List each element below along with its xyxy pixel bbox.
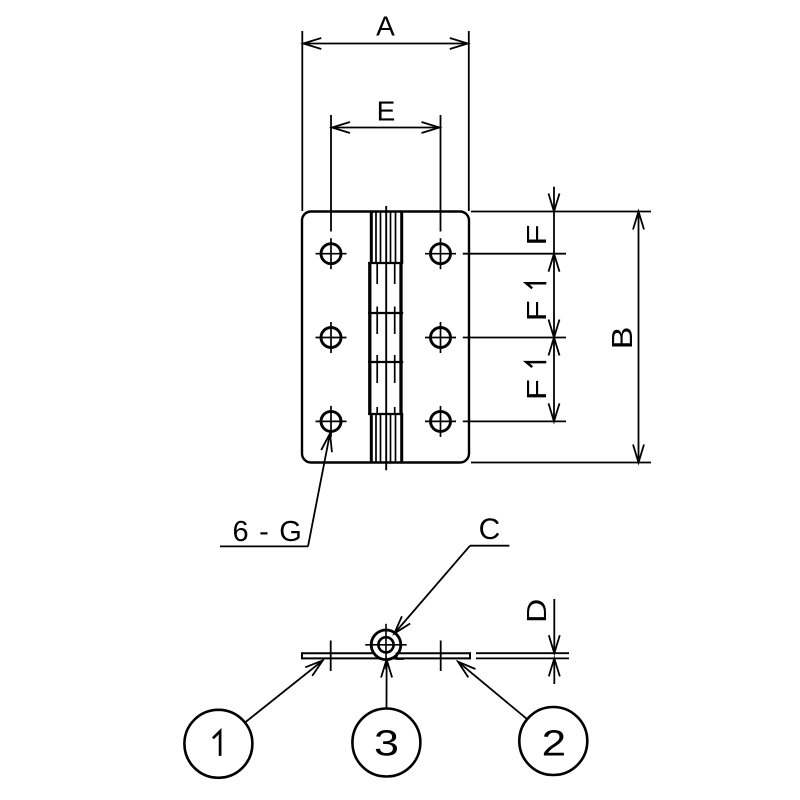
label D <box>521 599 552 623</box>
dimension A line with arrows <box>303 38 468 49</box>
6-G leader with arrow <box>308 434 332 547</box>
dimension E extension line right <box>440 115 442 232</box>
hole middle-right <box>425 322 456 353</box>
hole middle-left <box>316 322 347 353</box>
svg-text:6 - G: 6 - G <box>233 516 303 548</box>
label C <box>479 513 501 546</box>
knuckle joint line 1 <box>368 262 403 264</box>
dimension D outside arrow bottom <box>549 658 560 684</box>
svg-text:2: 2 <box>542 723 567 764</box>
knuckle pin centerline <box>385 206 387 470</box>
label B <box>607 327 639 350</box>
balloon 1 circle <box>184 710 252 778</box>
side view plate bottom line <box>302 657 470 659</box>
dimension A extension line left <box>301 31 303 211</box>
dimension D outside arrow top <box>549 599 560 653</box>
hole bottom-left <box>316 406 347 437</box>
knuckle curl step (side view) <box>397 653 404 659</box>
side view plate right end cap <box>469 652 471 659</box>
hole top-right <box>425 238 456 269</box>
knuckle joint line 2 <box>368 312 403 314</box>
side view hole mark left <box>330 641 332 672</box>
side view hole mark right <box>440 641 442 672</box>
balloon 3 leader with arrow <box>381 660 392 709</box>
label 6-G <box>233 516 303 548</box>
dimension F outside arrow (top) <box>549 187 560 212</box>
svg-text:B: B <box>607 327 639 350</box>
hole bottom-right <box>425 406 456 437</box>
dimension D extension line bottom <box>476 657 569 659</box>
C underline <box>470 545 509 547</box>
label E <box>377 96 396 127</box>
knuckle segment 1 (top) <box>371 212 401 264</box>
extension line hole row 2 <box>463 337 566 339</box>
balloon 3 circle <box>352 709 420 777</box>
svg-text:F: F <box>521 379 552 400</box>
knuckle segment 4 <box>370 362 401 414</box>
knuckle segment 5 (bottom) <box>371 414 401 463</box>
side view plate left end cap <box>301 652 303 659</box>
dimension E extension line left <box>330 115 332 232</box>
knuckle segment 2 <box>370 263 401 313</box>
dimension F line <box>553 212 555 254</box>
label F1 upper <box>521 283 552 321</box>
knuckle joint line 3 <box>368 361 403 363</box>
balloon 1 digit <box>213 731 220 756</box>
balloon 2 leader with arrow <box>458 662 527 720</box>
C leader with arrow <box>394 546 470 634</box>
svg-text:D: D <box>521 599 552 623</box>
balloon 2 digit <box>542 723 567 764</box>
barrel crosshair <box>365 624 407 669</box>
svg-text:3: 3 <box>374 723 399 764</box>
extension line hole row 1 <box>463 253 566 255</box>
dimension B line with arrows <box>633 212 644 463</box>
svg-text:F: F <box>521 224 552 245</box>
extension line hole row 3 <box>463 420 566 422</box>
label A <box>376 11 395 42</box>
extension line hinge bottom edge (right side) <box>471 462 651 464</box>
hole top-left <box>316 238 347 269</box>
dimension E line with arrows <box>332 122 440 133</box>
balloon 2 circle <box>519 707 587 775</box>
hinge leaf outline (front view) <box>302 212 469 463</box>
side view plate top line <box>302 652 470 654</box>
label F <box>521 224 552 245</box>
barrel pin circle (side view) <box>378 637 393 652</box>
dimension A extension line right <box>468 31 470 211</box>
6-G underline <box>220 545 308 547</box>
balloon 1 leader with arrow <box>245 660 323 722</box>
svg-text:C: C <box>479 513 501 546</box>
svg-text:F: F <box>521 300 552 321</box>
extension line hinge top edge (right side) <box>471 211 651 213</box>
dimension D extension line top <box>476 652 569 654</box>
knuckle joint line 4 <box>368 413 403 415</box>
knuckle segment 3 <box>370 313 401 362</box>
svg-text:A: A <box>376 11 395 42</box>
label F1 lower <box>521 362 552 400</box>
svg-text:E: E <box>377 96 396 127</box>
barrel outer circle (side view) <box>371 630 401 660</box>
dimension F1 lower line with arrows <box>549 338 560 422</box>
balloon 3 digit <box>374 723 399 764</box>
dimension F1 upper line with arrows <box>549 254 560 338</box>
